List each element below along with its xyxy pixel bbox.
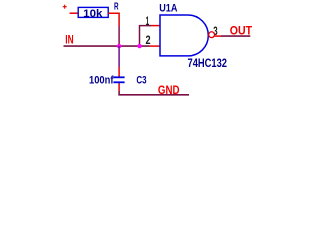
pin 2 stub (red) [150,45,160,47]
svg-text:GND: GND [158,84,180,97]
resistor R body [78,7,108,17]
capacitor bottom pin (blue stub + red) [118,82,120,83]
pin 1 stub (red) [151,25,160,27]
NAND gate U1A body (74HC132 Schmitt NAND) [160,15,208,56]
svg-text:10k: 10k [83,8,103,20]
junction node at R/C/IN [117,44,121,48]
wire to pin 1 (maroon vertical and horizontal) [140,26,152,46]
capacitor top pin (red) [118,67,120,77]
svg-text:IN: IN [65,34,73,46]
pin 3 stub (red) [215,35,221,37]
svg-text:R: R [114,1,119,12]
wire capacitor to GND net [119,91,189,95]
wire corner down to IN net (maroon) [118,26,120,46]
svg-text:C3: C3 [136,74,146,86]
power symbol + (VCC) [63,5,67,9]
wire VCC to resistor (red pin) [70,12,79,14]
output bubble [209,32,215,38]
junction node at pin1 branch [137,44,141,48]
svg-text:OUT: OUT [230,23,253,37]
wire IN horizontal net [64,45,150,47]
wire IN node down to capacitor (purple net) [118,46,120,67]
capacitor C3 plates [113,77,124,82]
svg-text:74HC132: 74HC132 [188,56,228,70]
svg-text:100nf: 100nf [89,74,114,86]
svg-text:1: 1 [146,14,150,28]
wire resistor to corner (red pin) [108,13,119,26]
svg-text:2: 2 [146,33,151,47]
wire OUT net [221,35,250,37]
svg-text:U1A: U1A [159,3,177,15]
